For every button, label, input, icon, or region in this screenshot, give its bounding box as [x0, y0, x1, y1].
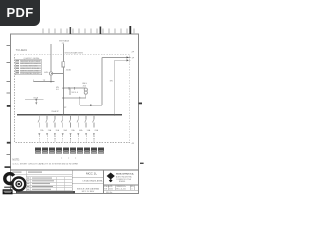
CT tick 2 on branch — [74, 87, 76, 89]
drawing frame border — [11, 34, 139, 194]
drop F5 — [69, 114, 75, 142]
company logo diamond — [107, 173, 115, 180]
revision table micro text — [27, 178, 54, 190]
wire below circles — [85, 94, 87, 98]
junction on PT bar — [50, 81, 51, 82]
drop F6 — [77, 114, 83, 142]
arrow tick on return line — [79, 96, 80, 98]
load tag box T6 — [70, 148, 75, 153]
junction of motor branch — [63, 87, 65, 89]
right edge tick marks — [139, 103, 143, 105]
table row 6 — [16, 72, 19, 74]
earth arrow below tap bar — [35, 100, 37, 104]
generator circle 2 — [84, 91, 87, 94]
revision table rows — [11, 174, 73, 191]
load tag box T5 — [63, 148, 68, 153]
table row 2 — [16, 63, 19, 65]
title block vertical divider right — [103, 170, 105, 194]
title block bottom cells — [104, 185, 139, 190]
CT tick 1 on branch — [68, 87, 70, 89]
feeder drops below bus — [38, 114, 99, 142]
junction dot tie line — [90, 104, 92, 106]
drop F1 — [38, 114, 44, 142]
drop F2 — [46, 114, 52, 142]
load tag box T4 — [56, 148, 61, 153]
equipment list table — [15, 60, 41, 75]
bus junction dot at V2 — [114, 114, 116, 116]
load tag box T10 — [98, 148, 103, 153]
left edge tick marks — [7, 46, 11, 155]
meter circle on feeder A — [49, 72, 52, 75]
wire: riser V2 — [114, 60, 116, 115]
wire: metering return line — [63, 97, 86, 99]
drop F3 — [54, 114, 60, 142]
dark fold tick top — [100, 27, 102, 35]
stamp logo text under C — [4, 187, 13, 188]
PT bar terminal — [34, 81, 55, 83]
title block vertical divider middle — [71, 170, 73, 194]
generator circle 1 — [84, 88, 87, 91]
load tag box T1 — [35, 148, 40, 153]
wire: feeder B vertical main — [62, 44, 64, 115]
top edge grid tick marks — [43, 29, 134, 35]
table row 3 — [16, 65, 19, 67]
fuse stub below branch — [69, 88, 71, 95]
main bus bar 380V — [17, 114, 122, 116]
load tag box T2 — [42, 148, 47, 153]
stamp logo C emblem — [5, 174, 14, 184]
wire: motor branch horizontal — [63, 87, 86, 89]
stamp black plate — [3, 189, 13, 194]
arrow on outgoing line 1 — [127, 56, 129, 58]
PDF badge — [0, 0, 40, 26]
sheet background — [0, 0, 149, 198]
CT junction dot on feeder B — [62, 97, 64, 99]
wire: tie line horizontal — [80, 104, 102, 106]
table row 1 — [16, 60, 19, 62]
dark scan band bottom of revision table — [16, 191, 75, 193]
wire: outgoing line 1 — [102, 56, 131, 58]
drop F8 — [93, 114, 99, 142]
load tag box T8 — [84, 148, 89, 153]
load tag box T9 — [91, 148, 96, 153]
wire: meter tap from feeder A to feeder B — [51, 73, 63, 75]
table row 4 — [16, 67, 19, 69]
load tag box T7 — [77, 148, 82, 153]
drop F4 — [61, 114, 67, 142]
wire: drop from return line — [79, 98, 81, 105]
fuse on feeder B — [62, 62, 65, 67]
wire: feeder A vertical (PT branch) — [50, 44, 52, 72]
drop F7 — [85, 114, 91, 142]
incoming tap bar — [25, 99, 44, 101]
tap bar junction dot — [35, 99, 37, 101]
wire: riser V1 — [101, 57, 103, 105]
stamp ring seal — [12, 178, 25, 191]
MCC dashed boundary box — [15, 55, 130, 143]
table row 5 — [16, 70, 19, 72]
arrow on outgoing line 2 — [127, 59, 129, 61]
title block top line — [11, 169, 139, 171]
load tag box T3 — [49, 148, 54, 153]
wire: outgoing line 2 — [115, 59, 131, 61]
wire below meter — [50, 75, 52, 82]
load tag boxes row — [35, 148, 103, 153]
